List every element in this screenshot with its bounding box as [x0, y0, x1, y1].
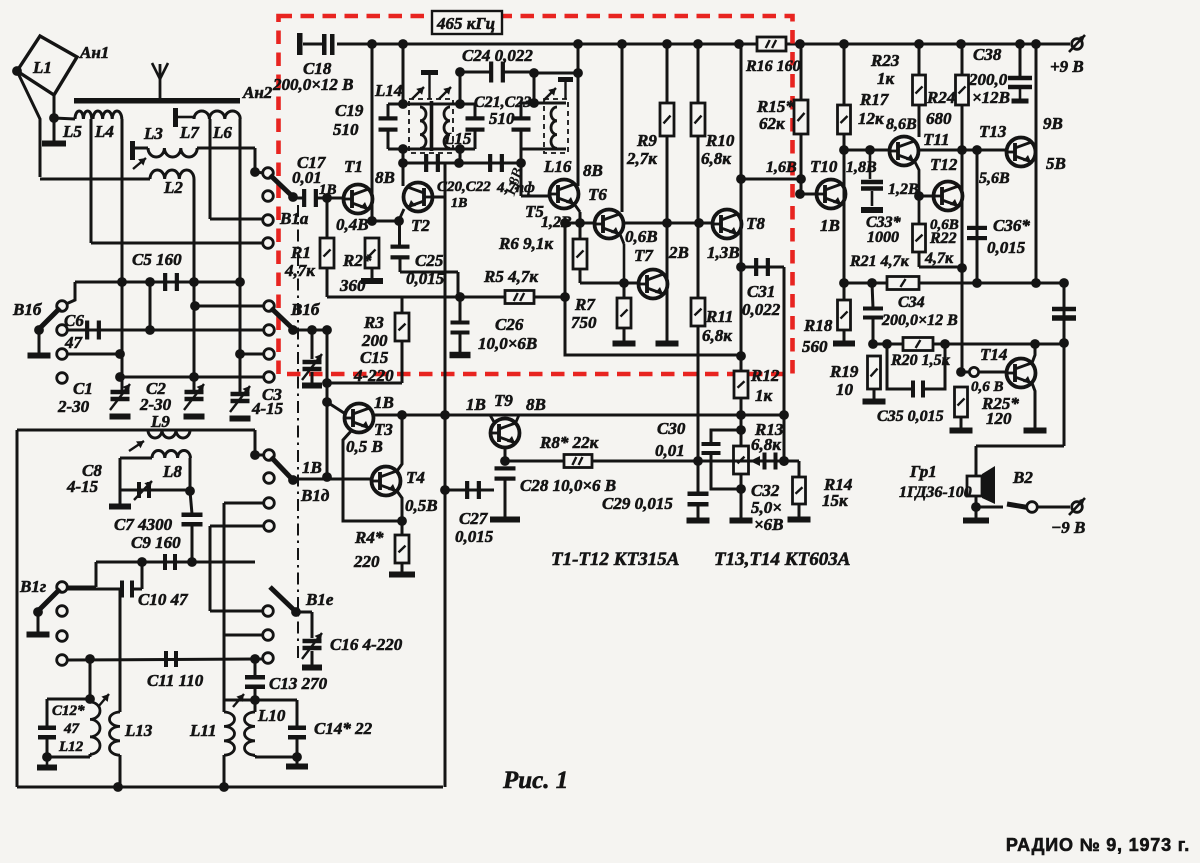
svg-text:0,6В: 0,6В [625, 227, 658, 246]
svg-text:5,6В: 5,6В [979, 170, 1010, 187]
svg-text:Т7: Т7 [634, 246, 654, 265]
svg-text:С15: С15 [360, 348, 389, 367]
svg-text:0,015: 0,015 [406, 269, 445, 288]
svg-text:750: 750 [571, 313, 597, 332]
svg-text:2В: 2В [668, 243, 689, 262]
svg-text:2,7к: 2,7к [626, 149, 657, 168]
svg-text:+9 В: +9 В [1050, 57, 1084, 76]
svg-text:С34: С34 [898, 294, 925, 311]
svg-text:47: 47 [63, 721, 80, 737]
svg-text:0,015: 0,015 [987, 238, 1026, 257]
svg-text:1,2В: 1,2В [541, 214, 572, 231]
svg-text:R17: R17 [859, 90, 890, 109]
svg-text:С5 160: С5 160 [132, 250, 182, 269]
svg-text:С30: С30 [657, 419, 686, 438]
svg-text:0,6В: 0,6В [930, 217, 959, 233]
svg-text:R18: R18 [803, 316, 833, 335]
svg-text:R4*: R4* [354, 528, 384, 547]
svg-text:Т13,Т14 КТ603А: Т13,Т14 КТ603А [714, 549, 850, 570]
svg-text:С6: С6 [64, 311, 84, 330]
svg-text:С19: С19 [335, 101, 364, 120]
svg-text:465 кГц: 465 кГц [436, 14, 495, 33]
svg-text:R10: R10 [705, 131, 735, 150]
svg-text:С9 160: С9 160 [131, 533, 181, 552]
svg-text:1В: 1В [451, 196, 467, 211]
svg-text:1000: 1000 [867, 229, 899, 246]
svg-text:R6 9,1к: R6 9,1к [498, 234, 553, 253]
svg-text:1В: 1В [466, 395, 486, 414]
svg-text:L10: L10 [257, 706, 286, 725]
svg-text:0,5В: 0,5В [405, 496, 438, 515]
svg-text:R1: R1 [290, 243, 311, 262]
svg-text:С38: С38 [973, 45, 1002, 64]
svg-text:4-15: 4-15 [66, 477, 99, 496]
svg-text:L13: L13 [124, 721, 153, 740]
svg-text:L12: L12 [58, 739, 84, 755]
svg-text:0,022: 0,022 [742, 300, 781, 319]
svg-text:0,01: 0,01 [292, 168, 322, 187]
svg-text:×6В: ×6В [754, 515, 784, 534]
svg-text:С7 4300: С7 4300 [114, 515, 173, 534]
svg-text:0,015: 0,015 [455, 527, 494, 546]
svg-text:В1б: В1б [290, 300, 321, 319]
svg-text:R21 4,7к: R21 4,7к [849, 253, 910, 270]
svg-text:200,0×12 В: 200,0×12 В [272, 75, 354, 94]
svg-text:9В: 9В [1043, 114, 1063, 133]
svg-text:1ГД36-100: 1ГД36-100 [899, 484, 972, 501]
svg-text:С29 0,015: С29 0,015 [602, 494, 673, 513]
svg-text:С24 0,022: С24 0,022 [462, 46, 533, 65]
svg-text:0,01: 0,01 [655, 441, 685, 460]
svg-text:R12: R12 [750, 366, 780, 385]
svg-text:Т4: Т4 [406, 468, 425, 487]
svg-text:Т10: Т10 [810, 157, 838, 176]
svg-text:Т9: Т9 [494, 391, 513, 410]
svg-text:4,7к: 4,7к [284, 261, 315, 280]
svg-text:С28 10,0×6 В: С28 10,0×6 В [520, 476, 616, 495]
svg-text:R7: R7 [574, 295, 596, 314]
svg-text:R8* 22к: R8* 22к [539, 433, 599, 452]
svg-text:L4: L4 [94, 122, 114, 141]
svg-text:R9: R9 [636, 131, 657, 150]
svg-text:4-15: 4-15 [251, 399, 284, 418]
svg-text:R19: R19 [829, 362, 859, 381]
svg-text:В1е: В1е [305, 590, 334, 609]
svg-text:×12В: ×12В [972, 88, 1010, 107]
svg-text:L11: L11 [189, 721, 216, 740]
svg-text:R5 4,7к: R5 4,7к [483, 267, 538, 286]
svg-text:4,7к: 4,7к [924, 250, 954, 267]
svg-text:0,6 В: 0,6 В [971, 379, 1004, 395]
svg-text:Т11: Т11 [923, 130, 949, 149]
svg-text:Гр1: Гр1 [909, 462, 937, 481]
svg-text:1,2В: 1,2В [888, 181, 919, 198]
svg-text:15к: 15к [822, 491, 848, 510]
svg-text:L7: L7 [179, 123, 200, 142]
svg-text:6,8к: 6,8к [701, 149, 731, 168]
svg-text:L16: L16 [543, 157, 572, 176]
svg-text:R23: R23 [870, 51, 900, 70]
svg-text:L3: L3 [143, 124, 163, 143]
svg-text:120: 120 [986, 409, 1012, 428]
svg-text:1,6В: 1,6В [766, 159, 797, 176]
svg-text:1,3В: 1,3В [707, 243, 740, 262]
svg-text:R24: R24 [926, 88, 955, 107]
svg-text:510: 510 [333, 120, 359, 139]
svg-text:220: 220 [353, 552, 380, 571]
svg-text:4-220: 4-220 [353, 366, 394, 385]
svg-text:1к: 1к [755, 386, 773, 405]
svg-text:В1б: В1б [12, 300, 43, 319]
svg-text:Рис. 1: Рис. 1 [502, 767, 568, 794]
svg-text:С20,С22: С20,С22 [437, 179, 491, 195]
svg-text:С16 4-220: С16 4-220 [330, 635, 403, 654]
svg-text:С36*: С36* [993, 216, 1030, 235]
svg-text:В2: В2 [1012, 468, 1033, 487]
svg-text:1к: 1к [877, 69, 895, 88]
svg-text:Т8: Т8 [746, 214, 765, 233]
svg-text:L8: L8 [162, 462, 182, 481]
svg-text:L9: L9 [150, 412, 170, 431]
svg-text:С12*: С12* [52, 703, 85, 719]
svg-text:С1: С1 [73, 379, 93, 398]
svg-text:0,4В: 0,4В [336, 215, 369, 234]
svg-text:R11: R11 [705, 307, 733, 326]
svg-text:680: 680 [926, 109, 952, 128]
svg-text:Т12: Т12 [930, 155, 958, 174]
svg-text:1В: 1В [302, 458, 322, 477]
svg-text:62к: 62к [759, 114, 785, 133]
svg-text:Ан2: Ан2 [242, 83, 273, 102]
svg-text:560: 560 [802, 337, 828, 356]
svg-text:С31: С31 [747, 282, 775, 301]
svg-text:1В: 1В [820, 216, 840, 235]
svg-text:С11 110: С11 110 [147, 671, 204, 690]
svg-text:6,8к: 6,8к [751, 435, 781, 454]
svg-text:Т13: Т13 [979, 122, 1007, 141]
svg-text:Т1: Т1 [344, 157, 363, 176]
svg-text:С14* 22: С14* 22 [314, 719, 373, 738]
svg-text:200,0: 200,0 [968, 70, 1008, 89]
svg-text:Т14: Т14 [980, 345, 1007, 364]
svg-text:С10 47: С10 47 [138, 590, 189, 609]
svg-text:R3: R3 [363, 313, 384, 332]
svg-text:Т6: Т6 [588, 185, 607, 204]
svg-text:−9 В: −9 В [1051, 518, 1085, 537]
svg-text:1,8В: 1,8В [846, 159, 877, 176]
svg-text:1В: 1В [319, 182, 337, 198]
svg-text:1В: 1В [374, 393, 394, 412]
svg-text:10: 10 [836, 380, 854, 399]
svg-text:5В: 5В [1046, 154, 1066, 173]
svg-text:8В: 8В [375, 168, 395, 187]
svg-text:Т2: Т2 [411, 216, 430, 235]
svg-text:С35 0,015: С35 0,015 [877, 408, 944, 425]
svg-text:L1: L1 [32, 58, 52, 77]
svg-text:В1а: В1а [279, 209, 309, 228]
svg-text:С27: С27 [459, 509, 489, 528]
svg-text:L15: L15 [443, 129, 472, 148]
svg-text:8,6В: 8,6В [886, 116, 917, 133]
svg-text:С25: С25 [415, 251, 444, 270]
svg-text:С26: С26 [495, 315, 524, 334]
svg-text:L5: L5 [62, 122, 82, 141]
svg-text:В1г: В1г [19, 577, 46, 596]
svg-text:510: 510 [489, 109, 515, 128]
svg-text:0,5 В: 0,5 В [346, 437, 383, 456]
svg-text:С13 270: С13 270 [269, 674, 328, 693]
svg-text:8В: 8В [583, 161, 603, 180]
svg-text:R2*: R2* [342, 251, 372, 270]
svg-text:R20 1,5к: R20 1,5к [890, 352, 951, 369]
svg-text:360: 360 [339, 276, 366, 295]
svg-text:12к: 12к [858, 109, 884, 128]
svg-text:В1д: В1д [300, 486, 330, 505]
svg-text:L6: L6 [212, 123, 232, 142]
svg-text:R16 160: R16 160 [745, 58, 801, 75]
svg-text:2-30: 2-30 [57, 397, 90, 416]
svg-text:Ан1: Ан1 [79, 43, 109, 62]
svg-text:L14: L14 [374, 81, 402, 100]
svg-text:Т1-Т12 КТ315А: Т1-Т12 КТ315А [551, 549, 679, 570]
svg-text:10,0×6В: 10,0×6В [478, 334, 537, 353]
svg-text:8В: 8В [526, 395, 546, 414]
svg-text:200,0×12 В: 200,0×12 В [881, 312, 958, 329]
svg-text:L2: L2 [163, 178, 183, 197]
svg-text:РАДИО № 9, 1973 г.: РАДИО № 9, 1973 г. [1006, 835, 1190, 855]
svg-text:6,8к: 6,8к [702, 326, 732, 345]
svg-text:47: 47 [64, 333, 84, 352]
